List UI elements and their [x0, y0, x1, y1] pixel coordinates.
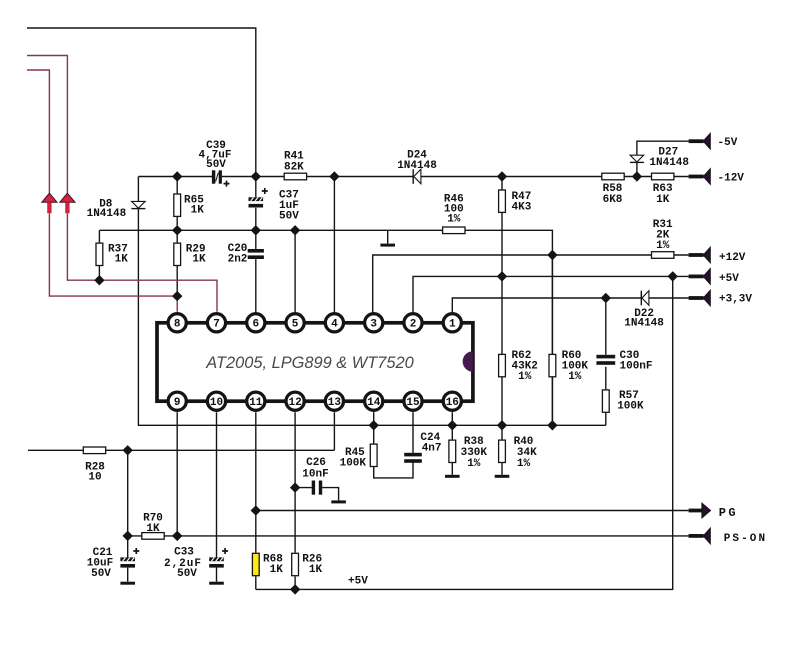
- junction: PG node on pin 11 column: [251, 506, 260, 515]
- resistor R60: [549, 354, 556, 376]
- svg-text:+5V: +5V: [719, 273, 739, 285]
- wire: R47 top lead from -12V rail: [501, 177, 503, 191]
- wire: top rail from (27,28) down to node at C37: [27, 28, 256, 177]
- diode D8: [131, 201, 145, 208]
- wire: IC pin 16 stub to under-IC rail: [451, 412, 453, 425]
- resistor R65: [174, 194, 181, 216]
- connector -5V: [689, 134, 711, 149]
- junction: R29 bottom / pin 8 maroon node: [173, 292, 182, 301]
- wire: R28 rail from left edge to pin 13 column: [28, 449, 334, 451]
- svg-text:16: 16: [446, 397, 459, 409]
- wire: C26 right lead down to ground: [322, 488, 338, 501]
- arrow: red up-arrow on pin-8 sense line: [42, 193, 57, 213]
- svg-text:1%: 1%: [518, 371, 532, 383]
- IC pin 6: [247, 314, 265, 332]
- wire: IC pin 15 column down to C24: [412, 412, 414, 453]
- resistor R38: [449, 440, 456, 462]
- junction: under-IC rail / R60 bottom: [548, 421, 557, 430]
- junction: D24/R47 node: [498, 172, 507, 181]
- IC pin 5: [286, 314, 304, 332]
- capacitor C37: [249, 188, 268, 208]
- ground: under C21: [120, 582, 135, 585]
- svg-text:100K: 100K: [617, 401, 644, 413]
- IC pin 1: [443, 314, 461, 332]
- svg-text:PG: PG: [719, 506, 738, 520]
- IC pin 7: [207, 314, 225, 332]
- capacitor C21: [120, 548, 139, 568]
- junction: D27/R58/R63 node: [632, 172, 641, 181]
- connector -12V: [689, 169, 711, 184]
- arrow: red up-arrow on pin-7 sense line: [60, 193, 75, 213]
- wire: IC pin 5 column up to node-B rail: [294, 230, 296, 312]
- svg-text:1N4148: 1N4148: [624, 318, 664, 330]
- junction: R70 right / pin 9 node: [173, 531, 182, 540]
- wire: R70 link and PS-ON rail: [128, 535, 689, 537]
- wire: R62 bottom lead: [501, 377, 503, 426]
- wire: +3.3V rail after D22 to connector: [649, 297, 689, 299]
- resistor R26: [292, 553, 299, 575]
- svg-text:1K: 1K: [192, 254, 206, 266]
- junction: +12V rail / R60 column: [548, 251, 557, 260]
- wire: R68 bottom lead to +5V return: [255, 577, 257, 590]
- wire: D8 cathode down to under-IC rail and across to R57: [138, 209, 605, 426]
- wire: D27 top lead and -5V feed: [636, 162, 638, 177]
- wire: IC pin 2 column up to +5V rail: [413, 276, 689, 312]
- capacitor C26: [312, 481, 322, 495]
- svg-text:+12V: +12V: [719, 252, 746, 264]
- junction: R37 bottom on maroon net: [95, 276, 104, 285]
- ground: node-B rail tap: [380, 244, 395, 247]
- svg-text:15: 15: [406, 397, 420, 409]
- svg-text:3: 3: [370, 319, 377, 331]
- wire: R60 column from +12V node down to under-IC rail: [551, 255, 553, 355]
- svg-text:50V: 50V: [279, 211, 299, 223]
- wire: node-B rail y=230.3 from R37 to corner at R60 column: [99, 230, 552, 425]
- connector +3.3V: [689, 290, 711, 305]
- svg-text:1K: 1K: [146, 523, 160, 535]
- svg-text:4: 4: [331, 319, 338, 331]
- svg-text:1%: 1%: [656, 240, 670, 252]
- wire: maroon stub into pin 8: [176, 296, 178, 312]
- wire: R57 bottom lead: [605, 413, 607, 426]
- wire: right-side +5V feedback drop: [256, 276, 673, 589]
- svg-text:C33: C33: [174, 547, 194, 559]
- IC pin 13: [325, 392, 343, 410]
- IC pin 9: [168, 392, 186, 410]
- wire: R26 bottom lead to +5V return: [294, 577, 296, 590]
- connector PS-ON: [689, 528, 711, 543]
- wire: R47 bottom lead to +5V rail: [501, 212, 503, 276]
- resistor R40: [499, 440, 506, 462]
- resistor R45: [370, 444, 377, 466]
- wire: -12V net horizontal rail y=176.5: [138, 176, 212, 178]
- junction: R28 rail / C21 column: [123, 446, 132, 455]
- IC pin 14: [365, 392, 383, 410]
- wire: D8 branch down the left side to under-IC rail: [137, 177, 139, 202]
- svg-text:50V: 50V: [206, 159, 226, 171]
- resistor R37: [96, 243, 103, 265]
- junction: R26 bottom on +5V return: [291, 585, 300, 594]
- diode D22: [641, 291, 649, 306]
- svg-text:1K: 1K: [309, 564, 323, 576]
- ground: under R40: [495, 475, 510, 478]
- wire: PG rail from pin 11 column to connector: [256, 510, 689, 512]
- wire: IC pin 14 stub to under-IC rail: [373, 412, 375, 425]
- svg-text:-12V: -12V: [718, 173, 745, 185]
- diode D24: [413, 169, 421, 184]
- svg-text:100K: 100K: [340, 458, 367, 470]
- svg-text:2n2: 2n2: [228, 254, 248, 266]
- IC pin 2: [404, 314, 422, 332]
- svg-text:4K3: 4K3: [512, 202, 532, 214]
- ground: under C33: [209, 582, 224, 585]
- junction: node-B / R65-R29: [173, 226, 182, 235]
- svg-text:50V: 50V: [177, 568, 197, 580]
- wire: C30 to R57: [605, 367, 607, 390]
- junction: node-B / pin 5: [291, 226, 300, 235]
- wire: R40 bottom lead to ground: [501, 463, 503, 475]
- svg-text:PS-ON: PS-ON: [724, 533, 768, 545]
- IC pin 16: [443, 392, 461, 410]
- junction: -12V rail / R65 top: [173, 172, 182, 181]
- wire: IC pin 4 column up to -12V rail: [333, 177, 335, 313]
- svg-text:-5V: -5V: [718, 137, 738, 149]
- wire: R38 bottom lead to ground: [451, 463, 453, 475]
- junction: C37 top node: [251, 172, 260, 181]
- wire: C20 bottom to IC pin 6: [255, 259, 257, 312]
- wire: IC pin 13 column down to R28 rail: [333, 412, 335, 450]
- svg-text:8: 8: [174, 319, 181, 331]
- junction: node-B / C37-C20: [251, 226, 260, 235]
- svg-text:2: 2: [410, 319, 417, 331]
- svg-text:1%: 1%: [467, 458, 481, 470]
- svg-text:1%: 1%: [447, 214, 461, 226]
- resistor R28: [83, 447, 105, 454]
- wire: R45 hanging from under-IC rail: [373, 425, 375, 445]
- wire: IC pin 11 column down through PG node to R68: [255, 412, 257, 552]
- IC pin 11: [247, 392, 265, 410]
- capacitor C39: [212, 170, 230, 186]
- junction: C26 node on pin 12 column: [291, 483, 300, 492]
- svg-text:100nF: 100nF: [620, 361, 653, 373]
- wire: C21 column from R28 rail to R70 node: [127, 450, 129, 557]
- wire: maroon sense line to pin 7 (upper): [27, 56, 67, 194]
- wire: R65 bottom lead: [176, 216, 178, 230]
- svg-text:AT2005, LPG899 & WT7520: AT2005, LPG899 & WT7520: [205, 354, 413, 372]
- resistor R63: [652, 173, 674, 180]
- wire: R65 column pin: [176, 177, 178, 195]
- wire: R40 top lead: [501, 425, 503, 440]
- svg-text:C26: C26: [306, 457, 326, 469]
- svg-text:5: 5: [292, 319, 299, 331]
- IC pin 12: [286, 392, 304, 410]
- wire: C21 bottom lead to ground: [127, 568, 129, 582]
- wire: IC pin 3 column up to +12V rail: [373, 255, 689, 312]
- wire: IC pin 10 column down to C33: [216, 412, 218, 557]
- wire: C30 column from +3.3V rail: [605, 298, 607, 355]
- resistor R31: [652, 252, 674, 259]
- ground: under C26: [331, 500, 346, 503]
- wire: R45 bottom loop to C24 bottom: [374, 463, 413, 478]
- wire: -12V net rail continued through C39 to connector: [222, 176, 689, 178]
- svg-text:9: 9: [174, 397, 181, 409]
- junction: +3.3V rail / C30 column: [601, 294, 610, 303]
- svg-text:10nF: 10nF: [302, 469, 328, 481]
- resistor R29: [174, 243, 181, 265]
- IC orientation notch: [463, 351, 473, 372]
- wire: IC pin 12 column down through C26 node to R26: [294, 412, 296, 552]
- svg-text:10: 10: [210, 397, 223, 409]
- wire: R62 column from +5V rail: [501, 276, 503, 354]
- capacitor C24: [404, 453, 422, 463]
- svg-text:1N4148: 1N4148: [649, 157, 689, 169]
- op-amp U1 body (supervisor IC AT2005/LPG899/WT7520): [157, 323, 473, 401]
- capacitor C20: [248, 249, 264, 259]
- junction: under-IC rail / R62-R40: [498, 421, 507, 430]
- junction: +5V rail / R47-R62: [498, 272, 507, 281]
- wire: R37 top lead: [98, 230, 100, 244]
- svg-text:12: 12: [288, 397, 301, 409]
- junction: R70 left node: [123, 531, 132, 540]
- IC pin 8: [168, 314, 186, 332]
- svg-text:10: 10: [88, 472, 101, 484]
- svg-text:1%: 1%: [568, 371, 582, 383]
- svg-text:1: 1: [449, 319, 456, 331]
- wire: ground stub on node-B rail: [387, 230, 389, 243]
- wire: R29 bottom lead to pin 8 node: [176, 265, 178, 296]
- svg-text:1N4148: 1N4148: [87, 208, 127, 220]
- svg-text:14: 14: [367, 397, 381, 409]
- wire: C37/C20 column between plates: [255, 177, 257, 198]
- wire: IC pin 1 column up to +3.3V rail: [452, 298, 641, 312]
- connector PG: [689, 503, 711, 517]
- wire: C26 left lead: [295, 487, 312, 489]
- diode D27: [630, 155, 644, 162]
- wire: R38 top lead: [451, 425, 453, 440]
- svg-text:6: 6: [252, 319, 259, 331]
- svg-text:+5V: +5V: [348, 576, 368, 588]
- svg-text:7: 7: [213, 319, 220, 331]
- junction: under-IC rail / pin 14 / R45: [369, 421, 378, 430]
- wire: maroon sense line to pin 8 (lower): [27, 70, 49, 193]
- resistor R46: [443, 227, 465, 234]
- junction: under-IC rail / pin 16 / R38: [448, 421, 457, 430]
- resistor R58: [602, 173, 624, 180]
- svg-text:11: 11: [249, 397, 263, 409]
- IC pin 15: [404, 392, 422, 410]
- resistor R70: [142, 533, 164, 540]
- wire: R60 bottom lead: [551, 377, 553, 426]
- connector +12V: [689, 247, 711, 262]
- svg-text:1K: 1K: [270, 564, 284, 576]
- wire: C37 bottom to node-B rail and C20 top: [255, 208, 257, 249]
- svg-text:1K: 1K: [656, 194, 670, 206]
- wire: -5V connector feed: [637, 141, 689, 155]
- wire: C33 bottom lead to ground: [216, 568, 218, 582]
- capacitor C33: [209, 548, 228, 568]
- wire: maroon lower line below arrow to pin 8: [49, 214, 177, 297]
- svg-text:1%: 1%: [517, 458, 531, 470]
- svg-text:82K: 82K: [284, 162, 304, 174]
- capacitor C30: [596, 355, 615, 365]
- resistor R68: [252, 553, 259, 575]
- IC pin 4: [325, 314, 343, 332]
- svg-text:1K: 1K: [191, 205, 205, 217]
- IC pin 3: [365, 314, 383, 332]
- ground: under R38: [445, 475, 460, 478]
- svg-text:6K8: 6K8: [603, 194, 623, 206]
- junction: R41/D24/pin4 node: [330, 172, 339, 181]
- svg-text:+3,3V: +3,3V: [719, 294, 752, 306]
- wire: R29 top lead: [176, 230, 178, 244]
- svg-text:1K: 1K: [115, 254, 129, 266]
- svg-text:13: 13: [328, 397, 342, 409]
- resistor R57: [602, 390, 609, 412]
- resistor R47: [499, 190, 506, 212]
- svg-text:1N4148: 1N4148: [397, 160, 437, 172]
- resistor R62: [499, 354, 506, 376]
- IC pin 10: [207, 392, 225, 410]
- junction: +5V rail / feedback drop: [668, 272, 677, 281]
- wire: R37 bottom lead to maroon net: [98, 265, 100, 280]
- svg-text:50V: 50V: [91, 568, 111, 580]
- wire: maroon upper line below arrow to pin 7: [67, 214, 217, 312]
- connector +5V: [689, 269, 711, 284]
- svg-text:4n7: 4n7: [422, 443, 442, 455]
- wire: IC pin 9 column down to R70 node: [176, 412, 178, 536]
- resistor R41: [284, 173, 306, 180]
